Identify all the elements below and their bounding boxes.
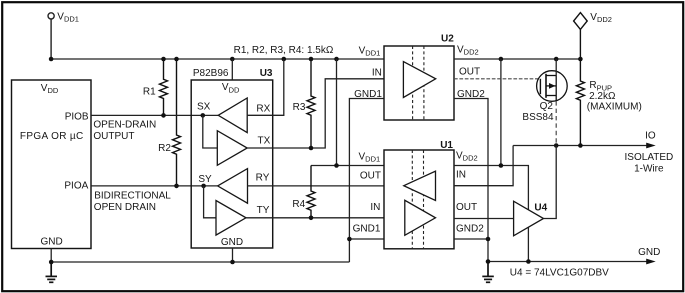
junction U4 GND on bus — [526, 259, 531, 264]
svg-text:GND2: GND2 — [456, 223, 484, 234]
junction VDD2 drop — [578, 57, 583, 62]
svg-text:1-Wire: 1-Wire — [634, 164, 664, 175]
wire U1 VDD2 riser — [500, 59, 502, 166]
wire VDD1 feed to U1 and R4 — [311, 165, 384, 167]
svg-text:RY: RY — [256, 172, 270, 183]
junction VDD2 riser at U1 — [499, 163, 504, 168]
junction GND2 bus — [486, 259, 491, 264]
wire SY to TY buffer input — [204, 186, 216, 218]
wire IO line — [513, 145, 649, 147]
junction U1 VDD2 riser top — [499, 57, 504, 62]
junction VDD1 riser on feed — [334, 163, 339, 168]
isolator U1 box — [384, 150, 454, 249]
svg-text:R1: R1 — [143, 86, 156, 97]
wire U1 GND2 — [454, 238, 488, 240]
buffer U3 RX->SX (points left) — [218, 98, 247, 133]
Q2 bulk arrow — [549, 83, 555, 89]
svg-text:Q2: Q2 — [540, 101, 554, 112]
wire U1 OUT to U4 — [454, 218, 514, 220]
wire RY internal — [248, 185, 273, 187]
svg-text:R3: R3 — [293, 102, 306, 113]
svg-text:R2: R2 — [158, 143, 171, 154]
wire SX to TX buffer input — [203, 115, 218, 148]
svg-text:SX: SX — [197, 102, 211, 113]
wire right ground bus — [488, 261, 649, 263]
svg-text:U3: U3 — [260, 68, 273, 79]
IC U3 P82B96 box — [191, 80, 273, 248]
resistor R1 — [160, 59, 168, 115]
svg-text:GND: GND — [41, 237, 63, 248]
wire left ground bus — [51, 261, 349, 263]
svg-text:IN: IN — [456, 170, 466, 181]
wire TY to U1 IN — [273, 217, 384, 219]
junction R3 top — [309, 57, 314, 62]
junction FPGA GND — [49, 260, 54, 265]
svg-text:U2: U2 — [441, 34, 454, 45]
junction U1 VDD1 riser — [334, 57, 339, 62]
svg-text:OUT: OUT — [360, 171, 381, 182]
svg-text:RX: RX — [256, 104, 270, 115]
wire U4 output to IO — [544, 146, 557, 219]
wire U2 GND1 — [349, 99, 384, 263]
FPGA block — [12, 80, 92, 249]
junction GND2 at U1 — [486, 237, 491, 242]
wire PIOB to SX — [91, 114, 218, 116]
ground symbol left — [46, 262, 58, 282]
wire U3 VDD drop — [231, 59, 233, 80]
wire VDD1 riser to U1 — [336, 59, 338, 166]
svg-text:PIOA: PIOA — [64, 181, 88, 192]
buffer U2 internal — [403, 62, 435, 98]
junction R3 bottom on TX — [309, 146, 314, 151]
wire Q2 drain dashed to IO — [555, 101, 557, 145]
wire U1 GND1 — [349, 238, 384, 240]
svg-text:OUT: OUT — [456, 202, 477, 213]
junction R1 bottom on PIOB — [161, 113, 166, 118]
svg-text:BSS84: BSS84 — [522, 112, 554, 123]
buffer U3 SX->TX (points right) — [217, 131, 247, 166]
junction U3 GND — [230, 260, 235, 265]
wire U4 ground drop — [527, 227, 529, 261]
junction VDD1-drop — [49, 57, 54, 62]
IO arrowhead — [646, 143, 656, 149]
svg-text:BIDIRECTIONAL: BIDIRECTIONAL — [94, 190, 171, 201]
junction RX riser — [282, 57, 287, 62]
svg-text:TY: TY — [257, 205, 270, 216]
node SY junction — [201, 184, 206, 189]
junction R2 top — [174, 57, 179, 62]
junction Q2 source top — [554, 57, 559, 62]
svg-text:U4: U4 — [534, 202, 547, 213]
wire VDD2 rail — [454, 58, 580, 60]
node VDD2 terminal diamond — [574, 13, 588, 59]
junction R4 bottom on TY — [309, 216, 314, 221]
junction RPUP bottom on IO — [578, 143, 583, 148]
junction U3 VDD drop — [230, 57, 235, 62]
U1 isolation barrier dashes — [412, 150, 423, 249]
resistor R3 — [307, 59, 315, 148]
svg-text:IO: IO — [645, 130, 656, 141]
svg-text:GND1: GND1 — [353, 223, 381, 234]
isolator U2 box — [384, 46, 454, 120]
wire TY internal — [246, 217, 273, 219]
buffer U4 — [514, 201, 544, 236]
wire TX internal — [247, 147, 273, 149]
ground symbol right — [482, 262, 494, 283]
junction GND1 riser at U1 — [347, 237, 352, 242]
wire PIOA to SY — [91, 185, 217, 187]
svg-text:R1, R2, R3, R4: 1.5kΩ: R1, R2, R3, R4: 1.5kΩ — [234, 45, 334, 56]
svg-text:GND1: GND1 — [354, 89, 382, 100]
svg-text:PIOB: PIOB — [65, 111, 89, 122]
svg-text:GND: GND — [221, 237, 243, 248]
junction Q2 drain / U4 out on IO — [554, 143, 559, 148]
svg-text:SY: SY — [198, 174, 212, 185]
svg-text:FPGA OR µC: FPGA OR µC — [20, 131, 84, 142]
svg-text:IN: IN — [370, 202, 380, 213]
junction R1 top — [161, 57, 166, 62]
GND arrowhead — [646, 259, 656, 265]
svg-text:U4 = 74LVC1G07DBV: U4 = 74LVC1G07DBV — [510, 268, 609, 279]
wire RY to U1 OUT — [273, 185, 384, 187]
U2 isolation barrier dashes — [413, 46, 424, 120]
wire VDD1 rail — [51, 58, 384, 60]
junction R2 bottom on PIOA — [174, 184, 179, 189]
wire IO to U1 IN — [454, 146, 513, 186]
buffer U1 left-to-right — [405, 200, 436, 235]
svg-text:R4: R4 — [292, 199, 305, 210]
wire U2 GND2 — [454, 99, 488, 262]
buffer U3 RY->SY (points left) — [218, 169, 248, 204]
wire RX to VDD1 rail — [273, 59, 284, 115]
wire U2 OUT dashed to Q2 gate — [454, 78, 540, 80]
svg-text:TX: TX — [258, 136, 271, 147]
wire RX internal — [247, 114, 273, 116]
svg-text:OUTPUT: OUTPUT — [93, 131, 134, 142]
resistor RPUP — [576, 59, 584, 146]
buffer U1 right-to-left — [404, 171, 436, 200]
svg-text:ISOLATED: ISOLATED — [625, 152, 674, 163]
svg-text:GND: GND — [638, 247, 660, 258]
node VDD1 terminal — [48, 13, 54, 59]
buffer U3 SY->TY (points right) — [216, 201, 246, 236]
svg-text:2.2kΩ: 2.2kΩ — [589, 91, 616, 102]
svg-text:OPEN-DRAIN: OPEN-DRAIN — [93, 119, 156, 130]
svg-text:P82B96: P82B96 — [193, 68, 229, 79]
wire TX node to U2 IN — [273, 79, 384, 148]
wire U3 GND drop — [232, 248, 234, 262]
svg-text:OPEN DRAIN: OPEN DRAIN — [94, 202, 156, 213]
svg-text:(MAXIMUM): (MAXIMUM) — [587, 101, 642, 112]
wire U1 VDD2 feed and U4 supply — [454, 166, 528, 211]
resistor R2 — [173, 59, 181, 186]
transistor Q2 BSS84 — [537, 59, 568, 101]
svg-text:IN: IN — [372, 67, 382, 78]
node SX junction — [201, 113, 206, 118]
resistor R4 — [307, 166, 315, 218]
svg-text:U1: U1 — [440, 140, 453, 151]
svg-text:OUT: OUT — [459, 67, 480, 78]
wire FPGA GND drop — [50, 249, 52, 263]
